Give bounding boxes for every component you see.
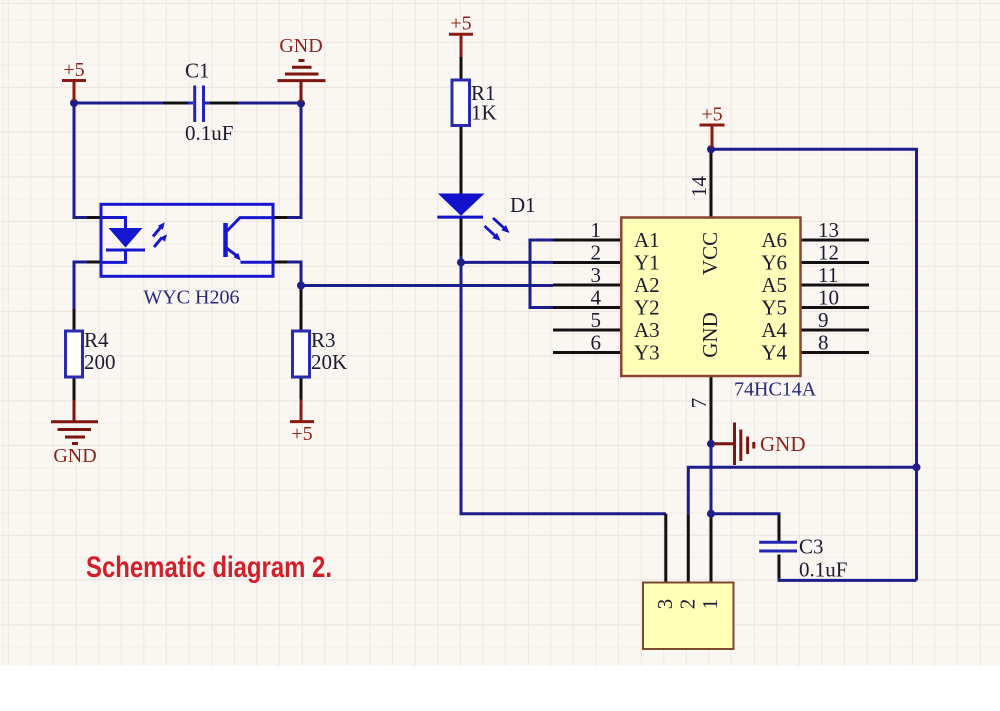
svg-text:WYC H206: WYC H206 <box>143 287 239 309</box>
svg-text:7: 7 <box>687 398 711 409</box>
IC right pin stubs 13-8 <box>801 240 870 353</box>
svg-text:9: 9 <box>818 308 829 332</box>
wire D1 cathode to IC pin Y1 <box>461 255 553 262</box>
svg-text:Y1: Y1 <box>634 251 660 275</box>
svg-text:Y6: Y6 <box>761 251 787 275</box>
svg-text:11: 11 <box>818 263 838 287</box>
opto emitter arrow head <box>234 253 241 261</box>
C3 pin stubs <box>778 515 781 578</box>
svg-text:A1: A1 <box>634 228 660 252</box>
ground GND at IC pin7 (rotated earth) <box>713 423 754 466</box>
capacitor C1 <box>188 86 210 123</box>
ground GND top (flipped earth) <box>278 61 326 103</box>
power +5 above IC pin14 <box>700 125 725 148</box>
svg-text:Schematic diagram 2.: Schematic diagram 2. <box>86 551 332 584</box>
svg-text:0.1uF: 0.1uF <box>185 121 233 145</box>
wire R1 to D1 <box>460 126 463 194</box>
svg-text:R3: R3 <box>311 328 336 352</box>
svg-text:20K: 20K <box>311 350 347 374</box>
svg-text:1: 1 <box>591 218 602 242</box>
svg-text:A4: A4 <box>761 318 787 342</box>
pin line R3 top <box>300 286 303 332</box>
IC pin 14 stub <box>710 152 713 218</box>
pin line R1 top <box>460 57 463 80</box>
svg-text:1K: 1K <box>471 101 497 125</box>
wire net top (+5 to C1 to GND) <box>74 102 301 105</box>
svg-text:A3: A3 <box>634 318 660 342</box>
white margin strip at bottom <box>0 666 1000 711</box>
svg-text:3: 3 <box>653 599 677 610</box>
power +5 left <box>62 81 86 102</box>
optocoupler U WYC H206 <box>101 204 273 276</box>
svg-text:6: 6 <box>591 331 602 355</box>
power +5 below R3 <box>290 400 314 422</box>
wire connector pin2 to +5 rail <box>688 467 916 515</box>
wire left rail down to opto pin1 <box>74 103 87 218</box>
svg-text:8: 8 <box>818 331 829 355</box>
svg-text:GND: GND <box>698 312 722 358</box>
IC left pin labels <box>634 228 660 365</box>
wire D1 node down to connector pin3 <box>461 262 666 513</box>
svg-text:A2: A2 <box>634 273 660 297</box>
IC 74HC14A box <box>621 218 800 377</box>
wire +5 right rail <box>711 149 917 580</box>
pin lines optocoupler left <box>87 218 101 263</box>
IC pin 7 stub <box>710 376 713 444</box>
resistor R3 <box>293 331 310 377</box>
svg-text:200: 200 <box>84 350 116 374</box>
svg-text:14: 14 <box>687 176 711 198</box>
wire D1 cathode <box>460 218 463 256</box>
svg-text:Y4: Y4 <box>761 341 787 365</box>
IC right pin numbers <box>818 218 839 355</box>
power +5 above R1 <box>449 34 473 57</box>
svg-text:2: 2 <box>591 241 602 265</box>
svg-text:2: 2 <box>676 599 700 610</box>
opto light arrow heads <box>158 222 165 229</box>
wire opto pin3 down to R3 node <box>287 262 301 286</box>
wire jumper A1 to Y2 <box>530 240 553 308</box>
IC left pin stubs 1-6 <box>553 240 621 353</box>
capacitor C3 <box>759 542 797 551</box>
LED triangle inside optocoupler <box>109 228 143 248</box>
svg-text:R4: R4 <box>84 328 109 352</box>
IC left pin numbers <box>591 218 602 355</box>
svg-text:3: 3 <box>591 263 602 287</box>
svg-text:12: 12 <box>818 241 839 265</box>
svg-text:VCC: VCC <box>698 232 722 275</box>
svg-text:Y2: Y2 <box>634 296 660 320</box>
svg-text:5: 5 <box>591 308 602 332</box>
svg-text:74HC14A: 74HC14A <box>734 379 817 401</box>
svg-text:A6: A6 <box>761 228 787 252</box>
ground GND bottom left <box>51 400 98 444</box>
svg-text:+5: +5 <box>63 59 84 81</box>
LED D1 <box>437 194 509 241</box>
svg-text:+5: +5 <box>701 104 722 126</box>
svg-text:+5: +5 <box>450 13 471 35</box>
svg-text:0.1uF: 0.1uF <box>799 558 847 582</box>
svg-text:+5: +5 <box>291 423 312 445</box>
svg-text:Y3: Y3 <box>634 341 660 365</box>
wire opto pin2 to R4 <box>74 262 87 309</box>
wire GND node to C3 <box>711 444 779 542</box>
svg-text:GND: GND <box>279 35 322 57</box>
connector pin stubs <box>666 514 711 583</box>
pin line C1 left <box>163 102 191 105</box>
svg-text:C1: C1 <box>185 59 210 83</box>
svg-text:A5: A5 <box>761 273 787 297</box>
svg-text:GND: GND <box>53 445 96 467</box>
svg-text:4: 4 <box>591 286 602 310</box>
pin line R4 bottom <box>73 377 76 400</box>
svg-text:C3: C3 <box>799 535 824 559</box>
pin line R4 top <box>73 309 76 331</box>
svg-text:1: 1 <box>698 599 722 610</box>
pin line R3 bottom <box>300 377 303 400</box>
resistor R1 <box>452 80 470 126</box>
pin lines optocoupler right <box>273 218 287 263</box>
wire C3 bottom to +5 rail <box>779 555 917 581</box>
svg-text:10: 10 <box>818 286 839 310</box>
wire opto pin4 up to top GND <box>287 104 301 218</box>
resistor R4 <box>66 331 83 377</box>
svg-text:13: 13 <box>818 218 839 242</box>
connector P1 box <box>643 583 734 650</box>
wire long node to IC pin A2 <box>301 284 553 287</box>
svg-text:Y5: Y5 <box>761 296 787 320</box>
svg-text:GND: GND <box>760 432 806 456</box>
svg-text:D1: D1 <box>510 193 536 217</box>
pin line C1 right <box>207 102 238 105</box>
IC right pin labels <box>761 228 787 365</box>
